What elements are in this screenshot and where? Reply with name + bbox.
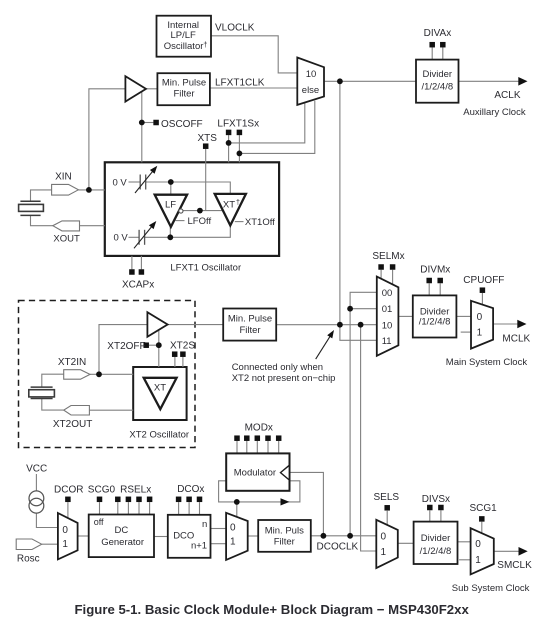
box U5 ACLK Divider /1/2/4/8: [416, 60, 459, 103]
net label LFXT1Sx: [217, 118, 259, 129]
XT2 dashed enclosure: [19, 301, 196, 448]
svg-text:†: †: [203, 40, 207, 49]
pad XT2OUT: [64, 406, 90, 416]
svg-text:XT2IN: XT2IN: [58, 357, 86, 368]
net label XCAPx: [122, 280, 154, 291]
svg-text:SELS: SELS: [374, 492, 400, 503]
svg-text:Min. Puls: Min. Puls: [265, 526, 304, 537]
svg-text:XT2 Oscillator: XT2 Oscillator: [129, 429, 189, 440]
wire SMCLK divider output to SCG1 mux: [458, 541, 471, 543]
label XT2 Oscillator: [129, 429, 189, 440]
svg-text:0: 0: [230, 522, 236, 533]
pin square OSCOFF: [153, 120, 159, 126]
pin squares RSELx: [115, 497, 152, 503]
wire DCO tap mux output to filter: [248, 535, 259, 537]
svg-text:OSCOFF: OSCOFF: [161, 119, 203, 130]
svg-text:XTS: XTS: [198, 133, 218, 144]
svg-text:DIVAx: DIVAx: [424, 28, 452, 39]
wire SELMx output to MCLK divider: [398, 315, 412, 317]
op-amp XT2: [144, 378, 177, 409]
wire XT2CLK branch down to SELS mux: [361, 325, 377, 551]
pin label XT2OUT: [53, 419, 92, 430]
wire CPUOFF pin line: [481, 293, 483, 305]
svg-text:RSELx: RSELx: [120, 484, 151, 495]
svg-text:0: 0: [475, 539, 481, 550]
net label CPUOFF: [463, 275, 504, 286]
wire OSCOFF stub: [142, 122, 154, 124]
label XT2 amp: [154, 382, 166, 393]
svg-text:SMCLK: SMCLK: [497, 560, 532, 571]
wire XOUT pad to LFXT1 box: [80, 225, 105, 227]
pad XT2IN: [64, 370, 90, 380]
annotation arrow to XT2 junction: [316, 330, 334, 359]
buffer U2 LFXT1: [125, 76, 146, 101]
svg-text:Filter: Filter: [239, 325, 260, 336]
svg-text:Oscillator: Oscillator: [164, 41, 204, 52]
wire DC generator to DCO: [154, 536, 168, 538]
net label SCG0: [88, 484, 116, 495]
svg-text:MODx: MODx: [245, 422, 273, 433]
svg-text:0 V: 0 V: [114, 233, 129, 244]
wire SCG0 pin line: [99, 502, 101, 514]
svg-text:Auxillary Clock: Auxillary Clock: [463, 107, 526, 118]
wire crystal Y1 bottom lead: [31, 215, 53, 225]
mux U10 labels: [477, 312, 483, 338]
wire LFXT1Sx bit1 branch to mux U3: [239, 101, 314, 154]
wire crystal Y1 top lead: [31, 190, 52, 201]
svg-text:XOUT: XOUT: [53, 233, 80, 244]
node ACLK branch junction: [337, 78, 343, 84]
pad XOUT: [53, 221, 80, 231]
label U12 text: [101, 525, 144, 548]
svg-text:Sub System Clock: Sub System Clock: [452, 583, 530, 594]
wire mux U3 output to ACLK divider: [324, 80, 416, 82]
box U9 MCLK Divider /1/2/4/8: [413, 295, 457, 337]
arrowhead MCLK: [517, 320, 526, 329]
box U18 SMCLK Divider /1/2/4/8: [414, 522, 458, 564]
svg-text:11: 11: [382, 336, 392, 347]
pad Rosc: [16, 539, 42, 550]
svg-text:Min. Pulse: Min. Pulse: [228, 314, 272, 325]
net label DCOCLK: [317, 542, 359, 553]
wire CPUOFF mux input 1 stub: [461, 331, 471, 333]
net label SELS: [374, 492, 400, 503]
wire MODx pin lines: [237, 441, 279, 454]
pad XIN: [52, 184, 79, 195]
svg-text:Main System Clock: Main System Clock: [446, 357, 528, 368]
wire XT2Sx pin lines: [175, 357, 183, 367]
net label LFXT1CLK: [215, 78, 265, 89]
node OSCOFF junction: [139, 120, 145, 126]
svg-text:Rosc: Rosc: [17, 553, 40, 564]
svg-text:XT1Off: XT1Off: [245, 217, 275, 228]
LF output bubble: [179, 209, 183, 213]
pin squares XT2Sx: [172, 351, 186, 357]
mux U17 labels: [381, 531, 387, 558]
wire buffer output drop to LFXT1 box: [141, 89, 143, 163]
net label DIVMx: [420, 265, 450, 276]
svg-text:Filter: Filter: [173, 88, 194, 99]
pin square SELS: [384, 505, 390, 511]
wire crystal Y2 bottom lead: [42, 399, 64, 411]
svg-text:LP/LF: LP/LF: [171, 30, 197, 41]
wire SELMx 01 input: [350, 308, 377, 310]
wire XTS control into LFXT1: [205, 149, 207, 211]
wire SCG1 pin line: [481, 522, 483, 534]
svg-text:VCC: VCC: [26, 463, 47, 474]
mux U10 CPUOFF: [471, 301, 493, 349]
label U4 text: [162, 78, 206, 100]
wire SELS pin line: [386, 511, 388, 525]
wire MCLK output: [493, 323, 518, 325]
svg-text:Connected only when: Connected only when: [232, 362, 323, 373]
svg-text:0: 0: [62, 525, 68, 536]
wire Rosc pad to DCOR mux: [42, 543, 58, 545]
svg-text:XT2OFF: XT2OFF: [107, 341, 145, 352]
pin square XTS: [203, 143, 209, 149]
svg-text:1: 1: [381, 547, 387, 558]
svg-text:/1/2/4/8: /1/2/4/8: [420, 546, 452, 557]
pin square DCOR: [65, 497, 71, 503]
mux U19 labels: [475, 539, 481, 566]
mux U17 SELS: [376, 520, 398, 568]
wire XT2 buffer output drop to XT2 box: [158, 325, 160, 367]
svg-text:SELMx: SELMx: [372, 251, 404, 262]
pin squares XCAPx: [129, 269, 144, 275]
wire RSELx pin lines: [118, 502, 150, 514]
svg-text:SCG1: SCG1: [470, 503, 498, 514]
label LFOff: [188, 216, 212, 227]
net label OSCOFF: [161, 119, 203, 130]
net label SCG1: [470, 503, 498, 514]
svg-text:ACLK: ACLK: [494, 90, 520, 101]
svg-text:Figure 5-1. Basic Clock Module: Figure 5-1. Basic Clock Module+ Block Di…: [75, 602, 470, 617]
wire SELS mux output to SMCLK divider: [398, 542, 414, 544]
svg-text:CPUOFF: CPUOFF: [463, 275, 504, 286]
label Sub System Clock: [452, 583, 530, 594]
modulator clock wedge: [281, 465, 290, 480]
svg-text:10: 10: [382, 320, 393, 331]
node LF input junction: [168, 179, 174, 185]
wire LFXT1 top cap row: [129, 182, 231, 194]
node XT2CLK-SELS junction: [358, 322, 364, 328]
XT2 oscillator inner box: [133, 367, 186, 420]
svg-text:DIVMx: DIVMx: [420, 265, 450, 276]
svg-text:DCOR: DCOR: [54, 484, 83, 495]
label XT1Off: [245, 217, 275, 228]
wire crystal Y2 top lead: [42, 374, 64, 387]
arrowhead ACLK: [518, 77, 527, 86]
node XT2OFF junction: [156, 342, 162, 348]
svg-text:VLOCLK: VLOCLK: [215, 23, 255, 34]
net label SMCLK: [497, 560, 532, 571]
wire current source to DCOR mux: [36, 513, 58, 527]
net label XT2Sx: [170, 340, 195, 351]
pin squares DIVMx: [426, 278, 443, 284]
svg-text:DC: DC: [115, 525, 129, 536]
wire LFXT1Sx bit0 branch to mux U3: [229, 103, 305, 143]
net label DIVSx: [422, 494, 450, 505]
svg-text:0: 0: [477, 312, 483, 323]
svg-text:DIVSx: DIVSx: [422, 494, 450, 505]
net label MCLK: [502, 333, 530, 344]
pin square SCG1: [479, 516, 485, 522]
label LFXT1 Oscillator: [170, 262, 241, 273]
wire VLOCLK net: [211, 36, 298, 73]
power label VCC: [26, 463, 47, 474]
svg-text:0 V: 0 V: [113, 178, 128, 189]
svg-text:MCLK: MCLK: [502, 333, 530, 344]
wire MCLK divider output to CPUOFF mux: [456, 315, 471, 317]
svg-text:LF: LF: [165, 200, 176, 211]
capacitor C1 variable (top 0V): [135, 166, 157, 193]
label Auxillary Clock: [463, 107, 526, 118]
svg-text:1: 1: [475, 555, 481, 566]
svg-text:Divider: Divider: [423, 69, 453, 80]
pin label XT2IN: [58, 357, 86, 368]
wire DCO tap n: [211, 528, 227, 530]
svg-text:1: 1: [230, 537, 236, 548]
svg-text:else: else: [302, 85, 319, 96]
wire DCO tap n+1: [211, 543, 227, 545]
svg-text:01: 01: [382, 304, 393, 315]
wire modulator feedback loop: [219, 481, 300, 502]
mux U3 labels: [302, 69, 319, 96]
label U1 text: [164, 20, 208, 52]
wire DCOR mux output to DC generator: [78, 535, 89, 537]
wire DCOx pin lines: [179, 502, 200, 515]
net label XT2OFF: [107, 341, 145, 352]
wire DIVMx pin lines: [429, 283, 440, 295]
wire ACLK output: [459, 80, 520, 82]
mux U14 DCO tap select: [226, 513, 248, 560]
label 0V bottom: [114, 233, 129, 244]
wire VCC to current source: [35, 474, 37, 491]
pin label XIN: [55, 171, 72, 182]
box U15 Modulator: [226, 453, 289, 490]
label U7 text: [228, 314, 272, 336]
wire SELMx pin lines: [381, 270, 393, 285]
label U18 text: [420, 533, 452, 557]
label U16 text: [265, 526, 304, 548]
crystal Y2: [29, 387, 55, 398]
pin square SCG0: [97, 497, 103, 503]
annotation text: [232, 362, 336, 384]
svg-text:0: 0: [381, 531, 387, 542]
net label VLOCLK: [215, 23, 255, 34]
svg-text:XCAPx: XCAPx: [122, 280, 154, 291]
wire DCOR pin line: [67, 502, 69, 518]
wire SCG1 mux input 1 stub: [459, 559, 471, 561]
figure caption: [75, 602, 470, 617]
label XT1 amp: [223, 200, 240, 211]
buffer U6 XT2: [147, 312, 167, 337]
arrowhead modulator loop: [281, 498, 290, 505]
net label DIVAx: [424, 28, 452, 39]
svg-text:n+1: n+1: [191, 540, 207, 551]
label U15 text: [234, 467, 276, 478]
box U4 Min. Pulse Filter (LFXT1): [157, 73, 210, 105]
pin squares SELMx: [378, 264, 395, 270]
net label DCOR: [54, 484, 83, 495]
wire LFXT1CLK bus down to SELMx 11 input: [340, 81, 377, 340]
current source I1: [29, 491, 44, 513]
wire LF/XT shared output node: [183, 210, 223, 212]
mux U8 labels: [382, 288, 393, 347]
node XT2IN junction: [96, 371, 102, 377]
box U16 Min. Puls Filter (DCO): [258, 520, 311, 552]
wire DCOCLK riser to SELMx 00 input: [350, 292, 377, 536]
label U5 text: [421, 69, 453, 92]
box U12 DC Generator: [89, 515, 154, 558]
wire LFOff stub: [176, 220, 185, 222]
label U13 text: [173, 531, 194, 542]
svg-text:Internal: Internal: [167, 20, 199, 31]
node XIN junction: [86, 187, 92, 193]
net label RSELx: [120, 484, 151, 495]
svg-text:/1/2/4/8: /1/2/4/8: [421, 81, 453, 92]
net label ACLK: [494, 90, 520, 101]
svg-text:XT2OUT: XT2OUT: [53, 419, 92, 430]
svg-text:00: 00: [382, 288, 393, 299]
wire modulator clock feed from DCOCLK: [290, 472, 324, 535]
svg-text:/1/2/4/8: /1/2/4/8: [419, 317, 451, 328]
svg-text:n: n: [202, 519, 207, 530]
svg-text:XT: XT: [154, 382, 166, 393]
mux U11 labels: [62, 525, 68, 550]
node XT2CLK-LFXT1 junction: [337, 322, 343, 328]
wire DCOCLK net: [311, 535, 377, 537]
wire XT2 buffer input from XT2IN node: [99, 325, 147, 375]
node LFXT1Sx bit0 junction: [226, 140, 232, 146]
mux U11 DCOR: [58, 513, 78, 559]
wire DIVAx pin lines: [432, 47, 443, 59]
svg-text:XIN: XIN: [55, 171, 72, 182]
svg-text:10: 10: [306, 69, 317, 80]
wire XIN pad to LFXT1 box: [78, 189, 104, 191]
svg-text:DCOCLK: DCOCLK: [317, 542, 359, 553]
svg-text:SCG0: SCG0: [88, 484, 116, 495]
label DCO taps: [191, 519, 207, 552]
node DCOCLK-riser junction: [347, 533, 353, 539]
node LF output junction: [197, 208, 203, 214]
svg-text:1: 1: [477, 327, 483, 338]
svg-text:Filter: Filter: [274, 537, 295, 548]
svg-text:LFXT1Sx: LFXT1Sx: [217, 118, 259, 129]
mux U8 SELMx: [377, 277, 399, 356]
svg-text:1: 1: [62, 539, 68, 550]
op-amp XT1: [215, 194, 246, 226]
node modulator loop junction: [234, 499, 240, 505]
svg-text:Generator: Generator: [101, 537, 144, 548]
node bottom 0V junction: [167, 234, 173, 240]
wire XT2 buffer output to filter: [168, 324, 224, 326]
svg-text:XT2S: XT2S: [170, 340, 195, 351]
pin squares DIVAx: [429, 42, 445, 48]
wire LFXT1CLK net: [210, 87, 297, 89]
svg-text:XT2 not present on−chip: XT2 not present on−chip: [232, 373, 336, 384]
wire LFXT1Sx bit1 into LFXT1: [238, 135, 240, 162]
wire XT2OUT pad to XT2 box: [89, 409, 133, 411]
wire LF amp input drop: [170, 182, 172, 195]
svg-text:LFXT1 Oscillator: LFXT1 Oscillator: [170, 262, 241, 273]
mux U3 10/else: [297, 58, 324, 105]
pin squares LFXT1Sx: [226, 130, 242, 136]
wire XT1Off stub: [235, 221, 244, 223]
svg-text:off: off: [94, 517, 104, 527]
op-amp LF: [155, 195, 187, 227]
svg-text:Min. Pulse: Min. Pulse: [162, 78, 206, 89]
arrowhead SMCLK: [519, 547, 528, 556]
wire XCAPx pin lines: [132, 256, 142, 269]
node LFXT1Sx bit1 junction: [237, 151, 243, 157]
label LF: [165, 200, 176, 211]
pin square XT2OFF: [143, 342, 149, 348]
svg-text:Divider: Divider: [421, 533, 451, 544]
net label XTS: [198, 133, 218, 144]
wire buffer U2 output to filter: [146, 88, 157, 90]
svg-text:LFOff: LFOff: [188, 216, 212, 227]
pin squares DCOx: [176, 497, 202, 503]
node SELMx 01 junction: [347, 306, 353, 312]
label U9 text: [419, 307, 451, 328]
wire buffer U2 input from XIN node: [89, 89, 126, 190]
svg-text:†: †: [236, 200, 240, 207]
wire modulator select to DCO tap mux: [236, 502, 238, 518]
pin squares DIVSx: [427, 505, 444, 511]
wire DIVSx pin lines: [430, 510, 441, 521]
wire XT2OFF stub: [149, 344, 159, 346]
svg-text:Modulator: Modulator: [234, 467, 276, 478]
LFXT1 oscillator block outline: [105, 162, 279, 256]
wire LFXT1Sx bit0 into LFXT1: [228, 135, 230, 162]
pin squares MODx: [234, 435, 281, 441]
net label SELMx: [372, 251, 404, 262]
pin label XOUT: [53, 233, 80, 244]
svg-text:LFXT1CLK: LFXT1CLK: [215, 78, 265, 89]
net label MODx: [245, 422, 273, 433]
box U13 DCO: [168, 515, 211, 558]
wire LF amp output drop to 0V row: [169, 227, 171, 238]
box U1 Internal LP/LF Oscillator: [157, 16, 212, 57]
wire LFXT1 bottom cap row: [129, 225, 231, 237]
box U7 Min. Pulse Filter (XT2): [223, 309, 276, 341]
mux U19 SCG1: [471, 528, 494, 574]
label off: [94, 517, 104, 527]
label 0V top: [113, 178, 128, 189]
wire XT2CLK row to SELMx 10 input: [276, 324, 377, 326]
mux U14 labels: [230, 522, 236, 547]
pin label Rosc: [17, 553, 40, 564]
pin square CPUOFF: [480, 287, 486, 293]
net label DCOx: [177, 484, 204, 495]
node DCOCLK-modulator junction: [321, 533, 327, 539]
wire XT2IN pad to XT2 box: [90, 373, 133, 375]
wire SMCLK output: [494, 550, 519, 552]
svg-text:XT: XT: [223, 200, 235, 211]
capacitor C2 variable (bottom 0V): [134, 221, 156, 248]
label Main System Clock: [446, 357, 528, 368]
svg-text:DCOx: DCOx: [177, 484, 204, 495]
crystal Y1: [19, 201, 44, 215]
